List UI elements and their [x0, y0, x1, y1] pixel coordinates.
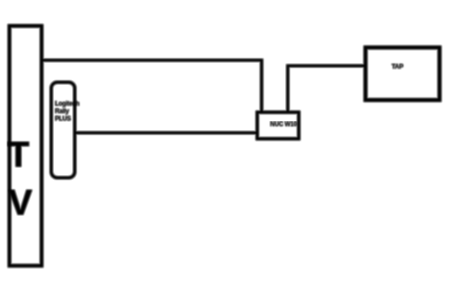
- TAP box: [366, 48, 440, 101]
- wire TV to NUC: [42, 60, 262, 111]
- svg-text:Rally: Rally: [55, 108, 70, 115]
- TV display box: [9, 26, 41, 266]
- wire NUC to TAP: [288, 66, 364, 111]
- svg-text:V: V: [9, 183, 33, 222]
- svg-text:PLUS: PLUS: [55, 115, 71, 122]
- svg-text:T: T: [8, 136, 29, 175]
- wire Rally to NUC: [76, 132, 256, 134]
- svg-text:TAP: TAP: [392, 64, 403, 71]
- svg-text:NUC W10: NUC W10: [270, 122, 297, 128]
- NUC W10 box: [257, 112, 299, 139]
- svg-text:Logitech: Logitech: [55, 100, 80, 107]
- Logitech Rally PLUS pill: [51, 82, 75, 178]
